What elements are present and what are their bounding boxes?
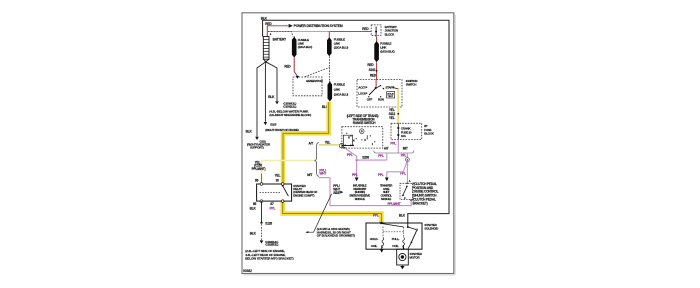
arrow to inflatable restraint energy reserve module [349, 178, 370, 202]
svg-text:GENERATOR: GENERATOR [306, 79, 324, 83]
svg-text:N: N [353, 140, 355, 143]
note PPL/WHT SIDE with arrow [333, 184, 343, 195]
wire PPL crank fuse to A/T M/T split [390, 140, 398, 153]
connector into range switch (A/T YEL) [339, 144, 343, 148]
wire PPL branch to transfer case module [378, 162, 407, 201]
svg-text:MODULE: MODULE [355, 197, 365, 201]
A/T M/T split bracket [374, 146, 414, 153]
svg-text:BLK: BLK [268, 95, 275, 99]
clutch pedal switch label [413, 182, 439, 206]
svg-text:(12GA BLU): (12GA BLU) [334, 45, 348, 49]
svg-text:S102: S102 [369, 68, 376, 72]
wire BLK battery to starter solenoid (top and right run) [261, 17, 449, 223]
svg-text:PPL/WHT): PPL/WHT) [252, 167, 266, 171]
PPL label on yellow run to solenoid [373, 213, 406, 217]
svg-text:RED: RED [362, 27, 369, 31]
fusible link 4 (16GA BLU) [322, 81, 348, 109]
svg-text:BLK: BLK [399, 214, 406, 218]
fusible link 2 (12GA BLU) [327, 32, 348, 82]
starter relay [250, 174, 318, 211]
svg-text:YEL: YEL [389, 116, 395, 120]
svg-text:PULL-: PULL- [392, 237, 400, 241]
svg-text:P: P [361, 129, 363, 133]
starter solenoid [366, 222, 439, 249]
svg-text:BLK: BLK [250, 232, 257, 236]
svg-text:OFF: OFF [367, 98, 373, 102]
wire thin yellow A/T branch to range switch [319, 141, 339, 145]
svg-text:WHT: WHT [319, 172, 326, 176]
svg-text:BULB: BULB [388, 93, 394, 95]
fusible link 1 (12GA BLK) [284, 36, 312, 78]
svg-text:BRACKET): BRACKET) [413, 201, 428, 205]
svg-text:30: 30 [276, 179, 280, 183]
svg-text:COIL: COIL [371, 244, 378, 248]
svg-text:SIDE: SIDE [333, 191, 340, 195]
crank fuse in I/P fuse block [391, 123, 435, 139]
svg-text:RANGE SWITCH: RANGE SWITCH [353, 121, 376, 125]
svg-text:LOCK: LOCK [358, 92, 367, 96]
svg-text:SOLENOID: SOLENOID [424, 227, 439, 231]
svg-text:PPL: PPL [270, 206, 276, 210]
svg-text:90382: 90382 [243, 269, 252, 273]
svg-text:(12GA BLK): (12GA BLK) [298, 45, 313, 49]
svg-text:BATTERY: BATTERY [273, 37, 287, 41]
svg-text:PPL/WHT: PPL/WHT [388, 202, 401, 206]
wire RED battery positive leads [265, 22, 371, 36]
svg-text:BLK: BLK [250, 206, 257, 210]
battery [263, 33, 287, 63]
dashed link battery positive to fusible link 1 [268, 32, 293, 37]
svg-text:FUSIBLE: FUSIBLE [334, 83, 345, 87]
svg-text:HOLD-: HOLD- [370, 237, 379, 241]
svg-text:BLOCK: BLOCK [385, 33, 395, 37]
svg-text:YEL: YEL [325, 141, 331, 145]
svg-text:BLK: BLK [261, 17, 268, 21]
svg-text:M/T: M/T [307, 173, 312, 177]
svg-text:G102(4.3L): G102(4.3L) [265, 242, 278, 246]
svg-text:2.2L-RIGHT SIDE ENGINE BLOCK): 2.2L-RIGHT SIDE ENGINE BLOCK) [269, 113, 311, 117]
battery negative leg wires [257, 62, 277, 137]
svg-text:SWITCH: SWITCH [406, 83, 416, 87]
callout line for harness note [305, 194, 355, 238]
ground G103 engine block (right leg) [268, 95, 311, 117]
wire BLK relay 85 to ground G102 with splice S128 [245, 201, 293, 260]
svg-text:PPL: PPL [373, 213, 379, 217]
svg-text:RED: RED [265, 22, 272, 26]
battery junction block [362, 25, 398, 37]
arrow to power distribution system [289, 24, 343, 28]
svg-text:A: A [409, 180, 411, 183]
svg-text:86: 86 [255, 179, 259, 183]
svg-text:R: R [348, 137, 350, 140]
svg-text:(16GA BLK): (16GA BLK) [380, 50, 395, 54]
svg-text:PPL: PPL [390, 142, 396, 146]
svg-text:SUPPORT): SUPPORT) [250, 146, 264, 150]
svg-text:YEL: YEL [275, 174, 281, 178]
wire RED junction block to ignition switch with splice S102 [367, 62, 377, 79]
wire highlighted yellow: fusible link 4 to starter relay term 30 [283, 102, 329, 183]
wire PPL range switch output [344, 147, 358, 177]
range switch internal contact strip [343, 135, 354, 146]
frame border [242, 13, 455, 275]
svg-text:PPL: PPL [378, 173, 384, 177]
svg-text:MOTOR: MOTOR [410, 256, 421, 260]
svg-text:BLK: BLK [246, 130, 253, 134]
svg-text:PPL: PPL [378, 154, 384, 158]
svg-text:A/T: A/T [309, 142, 314, 146]
svg-text:TEST: TEST [388, 96, 394, 98]
svg-text:A/T: A/T [384, 146, 389, 150]
svg-text:G105: G105 [270, 122, 277, 126]
svg-text:ENGINE COMPT): ENGINE COMPT) [293, 193, 314, 197]
svg-text:C: C [404, 197, 406, 200]
wire PPL M/T branch with connector [400, 153, 409, 183]
svg-text:POWER DISTRIBUTION SYSTEM: POWER DISTRIBUTION SYSTEM [294, 24, 343, 28]
svg-text:(16GA BLU): (16GA BLU) [334, 93, 348, 97]
wire YEL ignition switch to crank fuse, splice S112 [389, 88, 400, 123]
ignition switch [357, 79, 417, 107]
clutch pedal position switch [400, 180, 413, 201]
wire highlighted yellow: starter relay term 87 to solenoid S [283, 202, 382, 223]
wire PPL A/T branch to splice S208 [356, 153, 387, 161]
svg-text:RED: RED [370, 73, 377, 77]
svg-text:COIL: COIL [392, 244, 399, 248]
ground at hold coil [380, 245, 384, 252]
svg-text:M/T: M/T [403, 147, 408, 151]
svg-text:ACCY: ACCY [358, 85, 366, 89]
svg-text:S128: S128 [265, 222, 272, 226]
svg-text:S208: S208 [362, 156, 369, 160]
svg-text:BELOW STARTER MTG BRACKET): BELOW STARTER MTG BRACKET) [245, 256, 293, 260]
svg-text:PPL: PPL [401, 154, 407, 158]
svg-text:PPL: PPL [352, 173, 358, 177]
ground G105 right front of frame (center leg) [264, 122, 299, 132]
generator [293, 67, 330, 95]
svg-text:BLOCK: BLOCK [424, 132, 434, 136]
svg-text:RED: RED [367, 63, 374, 67]
svg-text:PPL: PPL [347, 153, 353, 157]
svg-text:RED: RED [284, 65, 291, 69]
svg-text:OF BULKHEAD GROMMET): OF BULKHEAD GROMMET) [317, 234, 355, 238]
wire PPL/WHT pink run to clutch switch C [330, 178, 411, 206]
svg-text:RUN: RUN [378, 98, 384, 102]
fusible link 3 (16GA BLK) [374, 37, 394, 62]
wire faint yellow relay 86 feed [252, 160, 315, 184]
transmission range switch [342, 114, 383, 148]
svg-text:MODULE: MODULE [381, 197, 391, 201]
diagram id number [243, 269, 252, 273]
wire PPL/WHT M/T branch into pink run [319, 168, 330, 177]
ground G101 right radiator support (left leg) [246, 130, 271, 150]
left curly brace A/T M/T alternates [307, 142, 319, 178]
starter motor [397, 245, 423, 269]
svg-text:G103(2.2L): G103(2.2L) [283, 104, 296, 108]
svg-text:D: D [364, 139, 366, 142]
